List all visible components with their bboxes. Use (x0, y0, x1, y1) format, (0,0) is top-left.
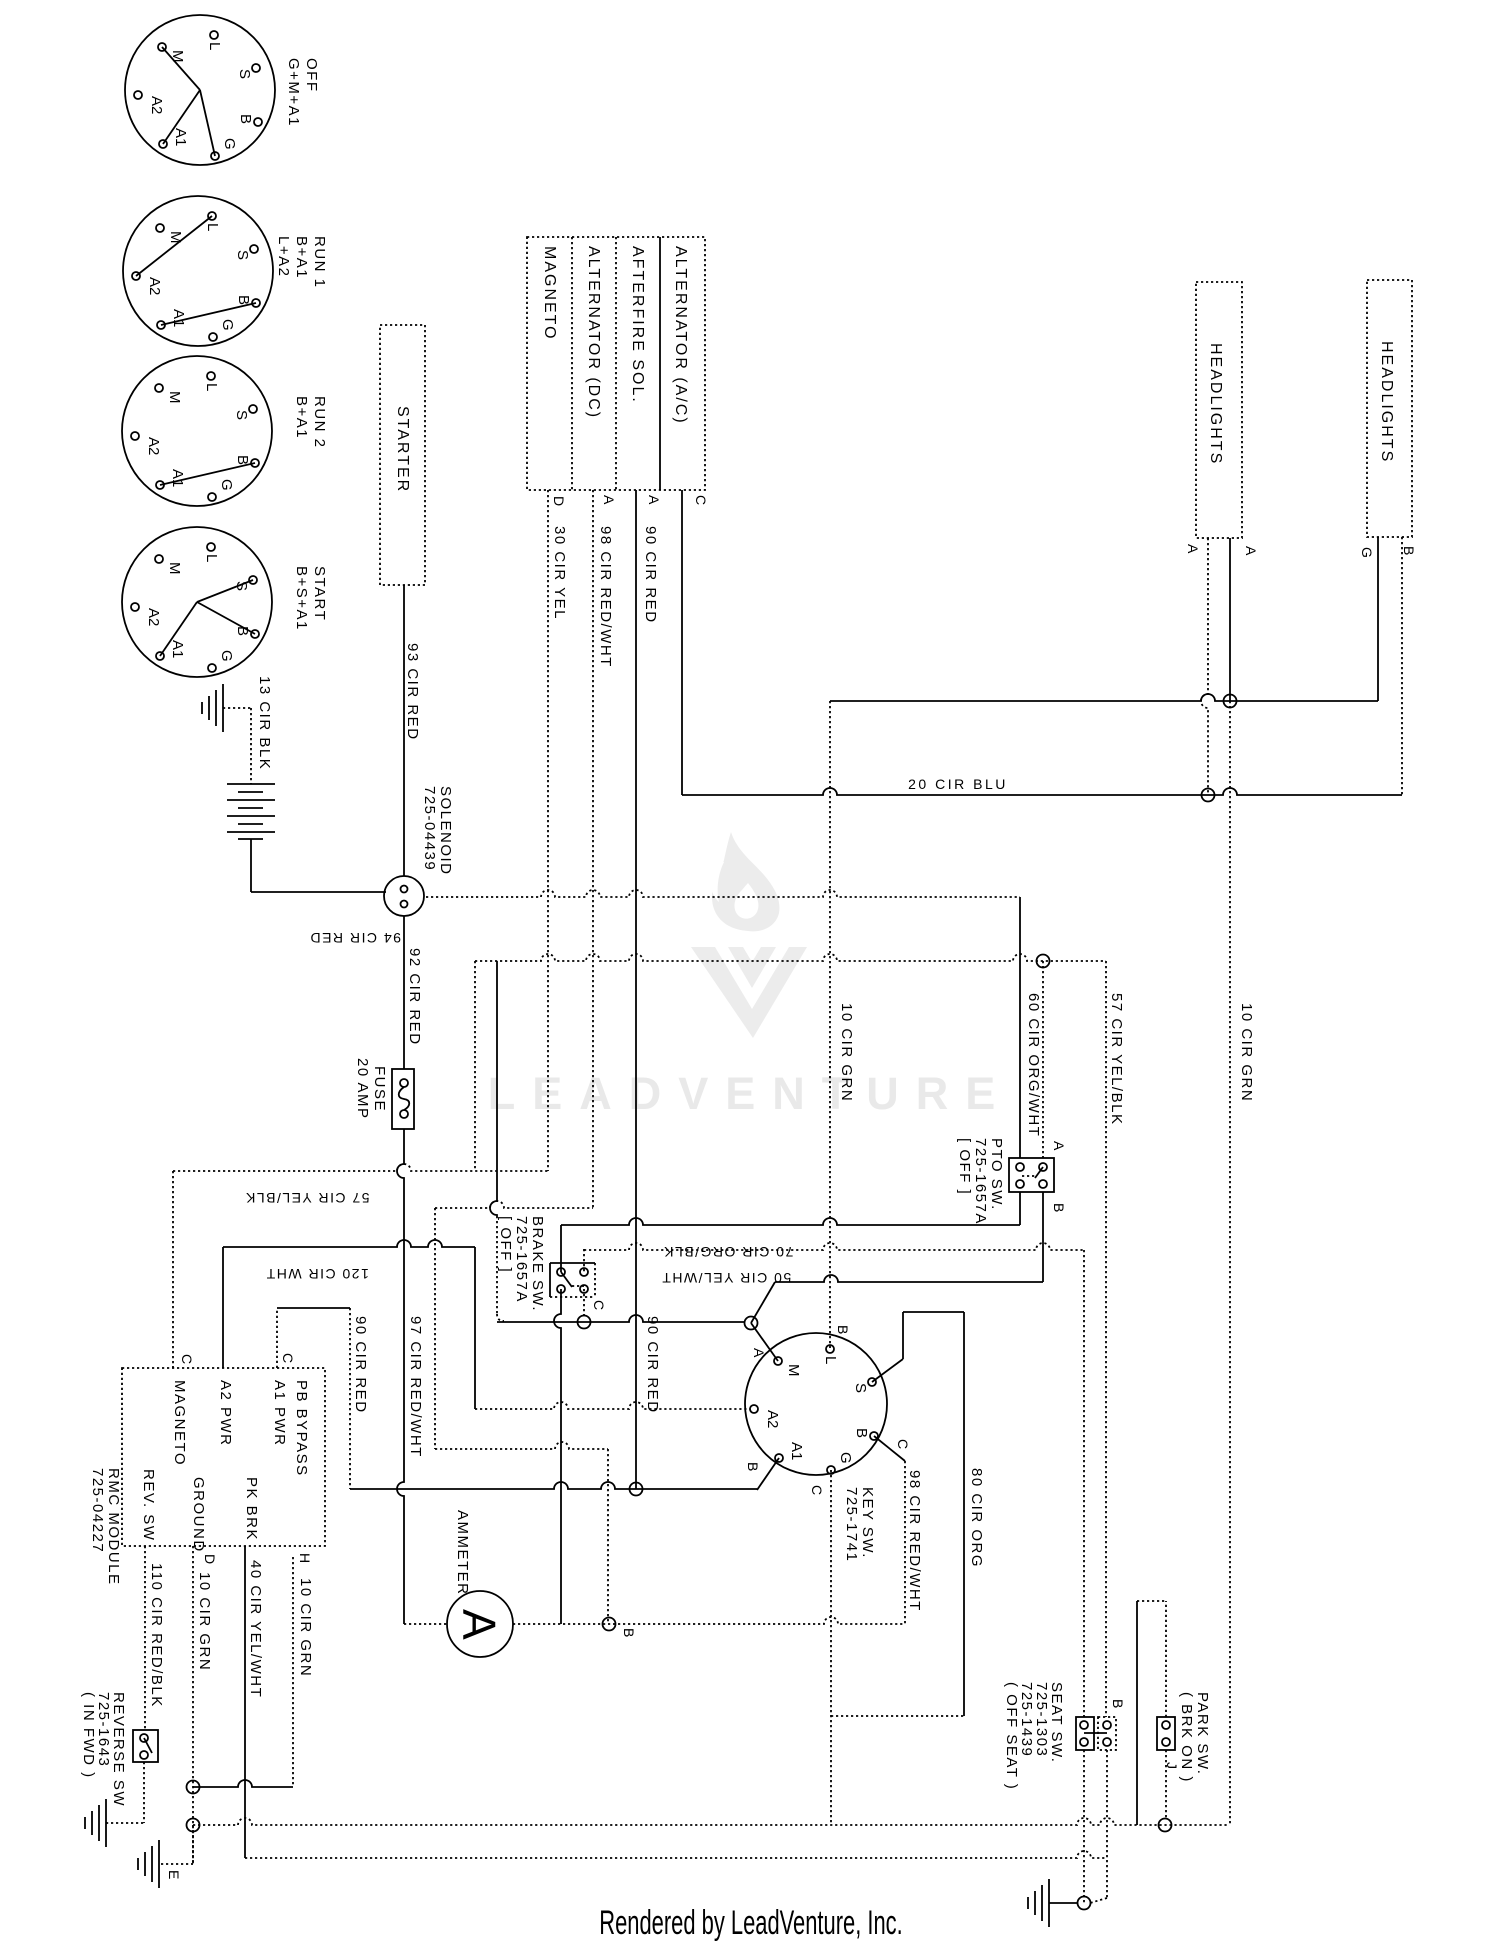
svg-text:B: B (237, 114, 254, 124)
svg-text:G: G (218, 479, 235, 491)
svg-text:RMC MODULE: RMC MODULE (105, 1468, 122, 1586)
svg-text:A: A (601, 495, 617, 505)
svg-text:Rendered by LeadVenture, Inc.: Rendered by LeadVenture, Inc. (599, 1904, 902, 1941)
svg-text:20 AMP: 20 AMP (354, 1058, 371, 1120)
svg-text:A2: A2 (145, 608, 162, 626)
svg-text:A1: A1 (172, 128, 189, 146)
svg-text:70 CIR ORG/BLK: 70 CIR ORG/BLK (663, 1244, 794, 1260)
svg-text:20 CIR BLU: 20 CIR BLU (908, 776, 1008, 792)
svg-text:725-04227: 725-04227 (89, 1468, 106, 1553)
svg-text:A: A (453, 1609, 505, 1640)
svg-text:92 CIR RED: 92 CIR RED (406, 948, 423, 1046)
svg-text:A1 PWR: A1 PWR (271, 1380, 288, 1447)
svg-text:MAGNETO: MAGNETO (541, 246, 558, 341)
svg-text:93 CIR RED: 93 CIR RED (404, 643, 421, 741)
svg-text:B: B (1401, 546, 1417, 555)
svg-text:S: S (852, 1383, 869, 1393)
svg-text:B+A1: B+A1 (293, 236, 310, 279)
svg-text:A2: A2 (148, 96, 165, 114)
svg-text:B: B (234, 455, 251, 465)
svg-text:94 CIR RED: 94 CIR RED (309, 930, 401, 946)
svg-text:10 CIR GRN: 10 CIR GRN (297, 1578, 314, 1677)
svg-text:60 CIR ORG/WHT: 60 CIR ORG/WHT (1025, 993, 1042, 1137)
svg-text:START: START (311, 566, 328, 621)
svg-text:G: G (221, 138, 238, 150)
svg-text:RUN 2: RUN 2 (311, 396, 328, 449)
svg-text:PARK SW.: PARK SW. (1194, 1692, 1211, 1775)
svg-text:A2 PWR: A2 PWR (217, 1380, 234, 1447)
svg-text:B: B (745, 1462, 761, 1471)
svg-text:B+A1: B+A1 (293, 396, 310, 439)
svg-text:10 CIR GRN: 10 CIR GRN (838, 1003, 855, 1102)
svg-text:STARTER: STARTER (394, 406, 411, 493)
svg-text:HEADLIGHTS: HEADLIGHTS (1378, 341, 1395, 463)
svg-text:A2: A2 (146, 277, 163, 295)
svg-text:40 CIR YEL/WHT: 40 CIR YEL/WHT (247, 1560, 264, 1698)
svg-text:ALTERNATOR (A/C): ALTERNATOR (A/C) (672, 246, 689, 425)
svg-text:C: C (280, 1353, 296, 1363)
svg-text:110 CIR RED/BLK: 110 CIR RED/BLK (148, 1563, 165, 1708)
svg-text:AMMETER: AMMETER (454, 1510, 471, 1596)
svg-text:A1: A1 (170, 309, 187, 327)
svg-text:725-1657A: 725-1657A (513, 1216, 530, 1303)
svg-text:M: M (166, 391, 183, 404)
svg-text:A: A (1185, 544, 1201, 554)
svg-text:SOLENOID: SOLENOID (437, 786, 454, 876)
svg-text:HEADLIGHTS: HEADLIGHTS (1207, 343, 1224, 465)
svg-text:AFTERFIRE SOL.: AFTERFIRE SOL. (629, 246, 646, 404)
svg-text:KEY SW.: KEY SW. (859, 1487, 876, 1559)
svg-text:C: C (591, 1300, 607, 1310)
svg-text:( OFF SEAT ): ( OFF SEAT ) (1003, 1682, 1020, 1790)
svg-text:A2: A2 (764, 1410, 781, 1428)
svg-text:A1: A1 (169, 640, 186, 658)
svg-text:S: S (233, 410, 250, 420)
svg-text:PK BRK: PK BRK (243, 1477, 260, 1541)
svg-text:M: M (167, 231, 184, 244)
svg-text:30 CIR YEL: 30 CIR YEL (551, 526, 568, 620)
svg-text:90 CIR RED: 90 CIR RED (644, 1316, 661, 1414)
svg-text:C: C (693, 495, 709, 505)
svg-text:( BRK ON ): ( BRK ON ) (1178, 1692, 1195, 1783)
svg-text:( IN FWD ): ( IN FWD ) (80, 1692, 97, 1779)
svg-text:90 CIR RED: 90 CIR RED (352, 1316, 369, 1414)
svg-text:A: A (646, 495, 662, 505)
svg-text:B: B (621, 1628, 637, 1637)
svg-text:D: D (551, 496, 567, 506)
svg-text:BRAKE SW.: BRAKE SW. (529, 1216, 546, 1312)
svg-text:57 CIR YEL/BLK: 57 CIR YEL/BLK (1108, 993, 1125, 1125)
svg-text:G: G (219, 319, 236, 331)
svg-text:B: B (853, 1428, 870, 1438)
svg-text:M: M (785, 1364, 802, 1377)
svg-text:A: A (751, 1348, 767, 1358)
svg-text:A1: A1 (788, 1442, 805, 1460)
svg-text:B: B (235, 295, 252, 305)
svg-text:B: B (1110, 1699, 1126, 1708)
svg-text:[ OFF ]: [ OFF ] (497, 1216, 514, 1273)
svg-text:A1: A1 (169, 469, 186, 487)
svg-text:120 CIR WHT: 120 CIR WHT (265, 1266, 369, 1282)
svg-text:[ OFF ]: [ OFF ] (956, 1138, 973, 1195)
svg-text:G: G (218, 650, 235, 662)
svg-text:98 CIR RED/WHT: 98 CIR RED/WHT (597, 526, 614, 668)
svg-text:G: G (837, 1452, 854, 1464)
svg-text:RUN 1: RUN 1 (311, 236, 328, 289)
svg-text:50 CIR YEL/WHT: 50 CIR YEL/WHT (661, 1270, 791, 1286)
svg-text:725-1657A: 725-1657A (972, 1138, 989, 1225)
svg-text:PTO SW.: PTO SW. (988, 1138, 1005, 1211)
svg-text:B: B (835, 1325, 851, 1334)
svg-text:H: H (297, 1553, 313, 1563)
svg-text:10 CIR GRN: 10 CIR GRN (196, 1572, 213, 1671)
svg-text:L: L (822, 1356, 839, 1364)
svg-text:PB BYPASS: PB BYPASS (293, 1380, 310, 1477)
svg-text:M: M (169, 50, 186, 63)
svg-text:57 CIR YEL/BLK: 57 CIR YEL/BLK (244, 1190, 369, 1206)
svg-text:M: M (166, 562, 183, 575)
svg-text:G+M+A1: G+M+A1 (285, 58, 302, 127)
svg-text:ALTERNATOR (DC): ALTERNATOR (DC) (585, 246, 602, 419)
svg-text:D: D (202, 1554, 218, 1564)
svg-text:LEADVENTURE: LEADVENTURE (488, 1068, 1013, 1119)
svg-text:97 CIR RED/WHT: 97 CIR RED/WHT (407, 1316, 424, 1458)
svg-text:98 CIR RED/WHT: 98 CIR RED/WHT (906, 1470, 923, 1612)
svg-text:725-1741: 725-1741 (843, 1487, 860, 1562)
svg-text:L+A2: L+A2 (275, 236, 292, 277)
svg-text:90 CIR RED: 90 CIR RED (642, 526, 659, 624)
svg-text:A2: A2 (145, 437, 162, 455)
svg-text:FUSE: FUSE (371, 1066, 388, 1112)
svg-text:G: G (1359, 547, 1375, 558)
svg-text:L: L (204, 223, 221, 231)
svg-text:13 CIR BLK: 13 CIR BLK (256, 676, 273, 770)
svg-text:OFF: OFF (303, 58, 320, 93)
svg-text:A: A (1051, 1141, 1067, 1151)
svg-text:B+S+A1: B+S+A1 (293, 566, 310, 631)
svg-text:B: B (1051, 1203, 1067, 1212)
svg-text:C: C (809, 1485, 825, 1495)
svg-text:A: A (1243, 546, 1259, 556)
svg-text:S: S (234, 250, 251, 260)
svg-text:REV. SW: REV. SW (140, 1469, 157, 1541)
svg-text:L: L (203, 383, 220, 391)
svg-text:L: L (206, 42, 223, 50)
svg-text:725-04439: 725-04439 (421, 786, 438, 871)
svg-text:10 CIR GRN: 10 CIR GRN (1238, 1003, 1255, 1102)
svg-text:C: C (895, 1439, 911, 1449)
svg-text:GROUND: GROUND (190, 1477, 207, 1553)
svg-text:C: C (179, 1354, 195, 1364)
svg-text:L: L (203, 554, 220, 562)
svg-text:80 CIR ORG: 80 CIR ORG (968, 1468, 985, 1568)
svg-text:MAGNETO: MAGNETO (171, 1380, 188, 1466)
svg-text:E: E (166, 1870, 182, 1879)
svg-text:S: S (236, 69, 253, 79)
